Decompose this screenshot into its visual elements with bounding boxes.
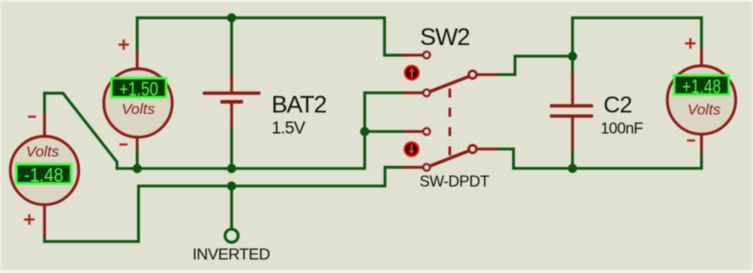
switch lever pole1 bbox=[430, 76, 471, 92]
switch linkage dashed line bbox=[448, 89, 451, 159]
wire: meter1 bottom stub bbox=[136, 150, 139, 169]
node INVERTED terminal circle bbox=[225, 229, 238, 242]
meter M1 LCD display bbox=[112, 78, 167, 97]
pin: switch throw 1 bbox=[402, 54, 423, 57]
svg-text:C2: C2 bbox=[604, 92, 632, 118]
meter M2 body circle bbox=[10, 136, 78, 204]
node: meter1- / wire1 junction bbox=[133, 164, 142, 173]
meter1 minus label bbox=[120, 143, 128, 145]
C2 bottom plate bbox=[550, 114, 593, 117]
node: C2 top junction bbox=[568, 52, 577, 61]
node: battery+ / top wire junction bbox=[227, 13, 236, 22]
wire: switch top common to C2 top and meter3 top bbox=[497, 56, 573, 74]
meter2 plus label bbox=[24, 214, 35, 225]
meter1 plus label bbox=[119, 39, 130, 50]
svg-text:-1.48: -1.48 bbox=[24, 165, 64, 186]
switch terminal circle throw1 bbox=[423, 52, 430, 59]
node: switch row3 junction bbox=[360, 127, 369, 136]
pin: switch throw 2 bbox=[403, 91, 423, 94]
node: battery- / wire1 junction bbox=[227, 164, 236, 173]
meter M1 body circle bbox=[104, 69, 172, 137]
switch lever pole2 bbox=[430, 150, 471, 166]
svg-text:INVERTED: INVERTED bbox=[193, 247, 270, 264]
pin: switch throw 3 bbox=[403, 130, 423, 133]
svg-text:Volts: Volts bbox=[26, 144, 60, 161]
meter3 minus label bbox=[687, 139, 695, 141]
pin: meter1 + bbox=[136, 52, 139, 71]
switch terminal circle throw2 bbox=[423, 89, 430, 96]
pin: meter3 - bbox=[700, 134, 703, 154]
component pin stubs (maroon) bbox=[45, 48, 702, 236]
wire: riser to switch throws row2/row3 bbox=[365, 93, 404, 169]
meter M3 LCD display bbox=[674, 76, 729, 95]
battery short plate bbox=[220, 100, 243, 104]
switch pivot circle pole2 bbox=[469, 145, 477, 153]
C2 top plate bbox=[550, 104, 593, 107]
svg-text:Volts: Volts bbox=[687, 102, 721, 119]
switch terminal circle throw3 bbox=[423, 128, 430, 135]
wire: inverted net from meter2 plus bbox=[45, 167, 405, 241]
pin: meter2 + bbox=[43, 205, 46, 237]
wire: row3 stub bbox=[365, 130, 404, 133]
svg-text:+1.50: +1.50 bbox=[119, 80, 158, 101]
switch actuator button down bbox=[404, 141, 420, 157]
meter2 minus label bbox=[28, 116, 36, 118]
wire: meter2 minus diagonal to wire1 bbox=[45, 93, 366, 168]
wire: battery top stub bbox=[230, 18, 233, 76]
wire: C2 bottom stub bbox=[571, 150, 574, 169]
svg-text:SW2: SW2 bbox=[420, 24, 470, 51]
node: C2 bottom junction bbox=[568, 164, 577, 173]
pin: meter2 - bbox=[43, 113, 46, 137]
svg-text:Volts: Volts bbox=[122, 101, 156, 118]
meter3 plus label bbox=[685, 38, 696, 49]
pin: meter3 + bbox=[700, 48, 703, 67]
node: inverted net junction bbox=[227, 181, 236, 190]
svg-text:+1.48: +1.48 bbox=[682, 77, 721, 98]
pin: C2 bottom bbox=[571, 117, 574, 150]
switch SW2 (SW-DPDT) bbox=[404, 52, 477, 171]
switch pivot circle pole1 bbox=[469, 71, 477, 79]
svg-text:100nF: 100nF bbox=[601, 120, 644, 137]
battery BAT2 bbox=[203, 92, 260, 104]
wire: battery+ top net (meter1 top to switch upper throw) bbox=[137, 18, 404, 55]
wire: inverted node stub bbox=[230, 186, 233, 228]
pin: battery top bbox=[230, 75, 233, 93]
meter M2 LCD display bbox=[16, 164, 71, 183]
switch actuator button up bbox=[404, 65, 420, 81]
voltmeter M1 (+1.50 Volts) bbox=[104, 69, 172, 137]
wire: battery bottom stub bbox=[230, 128, 233, 169]
pin: battery bottom bbox=[230, 103, 233, 128]
capacitor C2 plates bbox=[550, 104, 593, 118]
switch terminal circle throw4 bbox=[423, 164, 430, 171]
svg-text:SW-DPDT: SW-DPDT bbox=[420, 173, 490, 190]
pin: switch common 1 bbox=[477, 73, 499, 76]
pin: switch common 2 bbox=[477, 148, 499, 151]
meter M3 body circle bbox=[667, 66, 735, 134]
pin: switch throw 4 bbox=[403, 166, 423, 169]
pin: C2 top bbox=[571, 73, 574, 105]
svg-text:BAT2: BAT2 bbox=[272, 92, 327, 119]
svg-text:1.5V: 1.5V bbox=[272, 117, 306, 137]
voltmeter M2 (-1.48 Volts) bbox=[10, 136, 78, 204]
pin: meter1 - bbox=[136, 137, 139, 151]
wire: switch bottom common to C2 bottom and meter3 bottom bbox=[497, 149, 702, 168]
battery long plate bbox=[203, 92, 260, 95]
voltmeter M3 (+1.48 Volts) bbox=[667, 66, 735, 134]
